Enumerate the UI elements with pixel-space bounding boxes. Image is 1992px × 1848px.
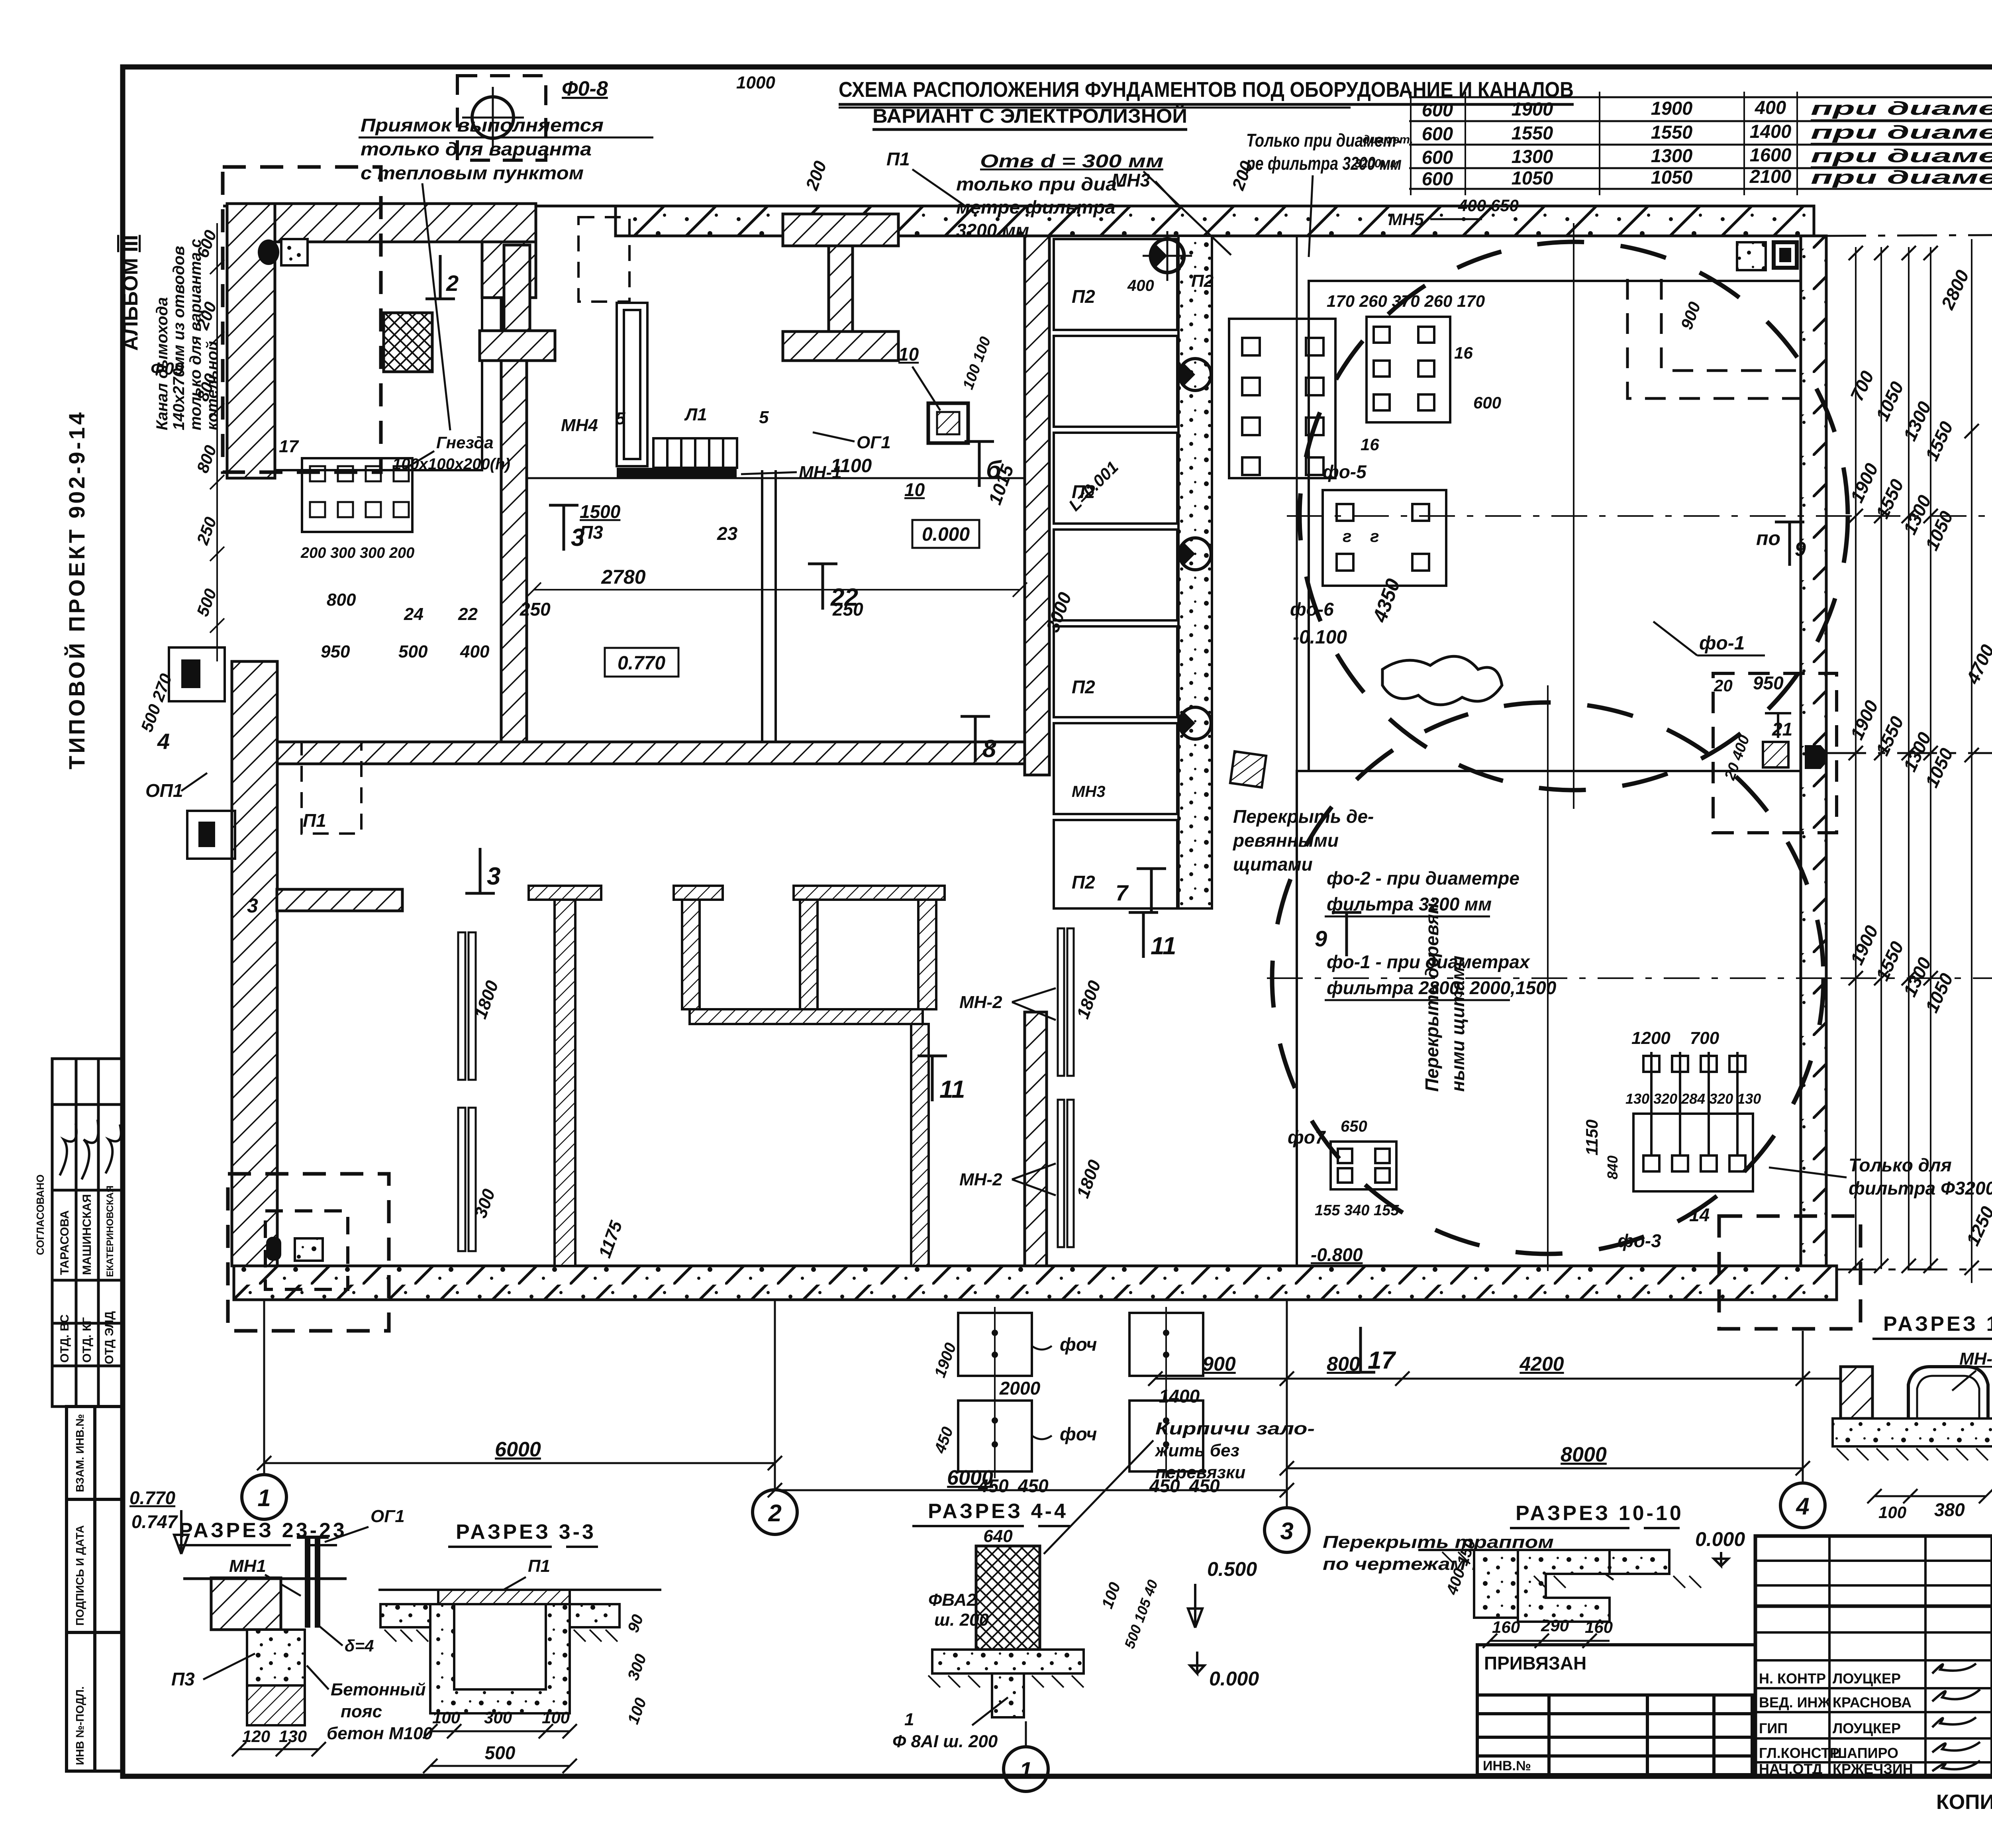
foundation ФО-7 xyxy=(1331,1142,1396,1189)
svg-text:П2: П2 xyxy=(1072,677,1095,697)
10-10 channel xyxy=(1474,1550,1518,1618)
23-23 steel post (black) xyxy=(305,1536,310,1628)
svg-text:ФВА2: ФВА2 xyxy=(928,1590,976,1610)
partition wall thin xyxy=(762,470,776,742)
svg-text:фильтра Ф3200: фильтра Ф3200 xyxy=(1849,1178,1992,1199)
svg-text:2100: 2100 xyxy=(1749,166,1792,187)
svg-text:ИНВ.№: ИНВ.№ xyxy=(1483,1758,1531,1773)
svg-text:ШАПИРО: ШАПИРО xyxy=(1833,1745,1898,1761)
svg-text:ревянными: ревянными xyxy=(1232,830,1339,851)
svg-text:155 340 155: 155 340 155 xyxy=(1315,1202,1399,1219)
перекрыть деревянными щитами (horizontal) xyxy=(1232,806,1374,875)
оп1 pad outside left wall xyxy=(169,647,225,701)
svg-text:жить без: жить без xyxy=(1155,1441,1239,1460)
svg-text:Перекрыть де-: Перекрыть де- xyxy=(1233,806,1374,827)
room level label 0.000 xyxy=(912,520,979,548)
svg-text:1050: 1050 xyxy=(1512,167,1553,188)
svg-text:Ф 8АI ш. 200: Ф 8АI ш. 200 xyxy=(892,1732,998,1751)
svg-text:котельной: котельной xyxy=(204,341,221,430)
svg-text:ЕКАТЕРИНОВСКАЯ: ЕКАТЕРИНОВСКАЯ xyxy=(105,1185,116,1277)
svg-text:1400: 1400 xyxy=(1750,121,1792,142)
ФО-8 dashed box with circle xyxy=(457,76,608,160)
signatures scribbles xyxy=(1932,1664,1980,1771)
канал дымохода vertical note xyxy=(153,239,221,430)
middle vertical wall lower (hatched) xyxy=(1025,1012,1047,1266)
svg-text:8: 8 xyxy=(982,735,996,763)
channel strip with speckle xyxy=(1178,236,1212,908)
svg-text:МН-2: МН-2 xyxy=(959,1170,1002,1189)
column axis circle 1 xyxy=(242,1475,286,1519)
svg-text:г г: г г xyxy=(1343,527,1379,545)
svg-text:22: 22 xyxy=(458,604,478,624)
left vertical dim chain of boiler area xyxy=(210,223,224,661)
23-23 lower concrete xyxy=(247,1630,305,1725)
svg-text:только для варианта с: только для варианта с xyxy=(187,239,204,430)
svg-text:КРЖЕЧЗИН: КРЖЕЧЗИН xyxy=(1833,1761,1913,1777)
section mark 7 xyxy=(1116,869,1166,912)
svg-text:0.500: 0.500 xyxy=(1207,1558,1257,1580)
svg-text:11: 11 xyxy=(939,1076,965,1103)
svg-text:16: 16 xyxy=(1454,343,1473,362)
svg-text:метре фильтра: метре фильтра xyxy=(956,197,1116,218)
svg-text:фо-3: фо-3 xyxy=(1618,1230,1661,1251)
right dimension chain lines xyxy=(1856,239,1992,1283)
svg-text:6000: 6000 xyxy=(495,1438,541,1461)
svg-text:Только при диамет-: Только при диамет- xyxy=(1246,130,1402,151)
svg-text:ОГ1: ОГ1 xyxy=(371,1507,405,1526)
svg-text:ПОДПИСЬ И ДАТА: ПОДПИСЬ И ДАТА xyxy=(74,1525,86,1626)
svg-text:3: 3 xyxy=(1280,1518,1293,1544)
svg-text:20: 20 xyxy=(1714,676,1733,695)
svg-text:ПРИВЯЗАН: ПРИВЯЗАН xyxy=(1484,1653,1586,1673)
section mark 9 xyxy=(1315,912,1361,956)
svg-text:ГИП: ГИП xyxy=(1759,1720,1788,1736)
svg-text:1900: 1900 xyxy=(1512,98,1553,120)
foundation cluster ФО-5 xyxy=(1367,317,1450,422)
left margin signatures scribbles xyxy=(60,1120,121,1179)
3-3 U channel xyxy=(430,1604,570,1713)
svg-text:400 650: 400 650 xyxy=(1458,196,1519,215)
svg-text:МН3: МН3 xyxy=(1112,170,1151,190)
room dims xyxy=(520,461,1076,635)
4 mark left xyxy=(157,729,258,917)
svg-text:600: 600 xyxy=(1422,99,1453,120)
МН-2 rails left xyxy=(458,932,476,1251)
small row labels left of table xyxy=(1355,133,1413,170)
4-4 pier below xyxy=(992,1673,1024,1717)
foundation ФО-6 xyxy=(1323,490,1446,586)
svg-text:КОПИРОВАЛ: КОРШУНОВА: КОПИРОВАЛ: КОРШУНОВА xyxy=(1936,1791,1992,1814)
svg-text:ТАРАСОВА: ТАРАСОВА xyxy=(58,1210,71,1275)
svg-text:ОТД. ВС: ОТД. ВС xyxy=(58,1314,71,1363)
boiler room left wall (hatched) xyxy=(227,204,275,478)
svg-text:3: 3 xyxy=(247,895,258,917)
svg-text:МН4: МН4 xyxy=(561,416,598,435)
svg-text:1300: 1300 xyxy=(1512,146,1553,167)
svg-text:ОТД. КГ: ОТД. КГ xyxy=(80,1317,94,1363)
11-11 left pier hatched xyxy=(1841,1367,1872,1418)
svg-text:200 300 300 200: 200 300 300 200 xyxy=(300,545,414,561)
svg-text:100: 100 xyxy=(1878,1503,1906,1522)
svg-text:16: 16 xyxy=(1361,435,1379,454)
svg-text:П2: П2 xyxy=(1072,286,1095,307)
svg-text:3: 3 xyxy=(487,863,500,890)
svg-text:0.000: 0.000 xyxy=(1695,1528,1745,1550)
svg-text:по: по xyxy=(1756,527,1780,549)
svg-text:400: 400 xyxy=(460,642,490,661)
оп1 pad 2 xyxy=(187,811,235,859)
dashed service lines top right xyxy=(1627,279,1801,398)
rotated chain dimension labels xyxy=(1846,267,1992,1249)
dim ticks on top band xyxy=(736,73,1257,193)
top-right corner pads xyxy=(1737,242,1766,270)
svg-text:П1: П1 xyxy=(886,149,910,169)
svg-text:пояс: пояс xyxy=(341,1702,382,1721)
svg-text:ре фильтра 3200 мм: ре фильтра 3200 мм xyxy=(1245,153,1402,174)
svg-text:0.770: 0.770 xyxy=(129,1487,176,1508)
svg-text:ВЗАМ. ИНВ.№: ВЗАМ. ИНВ.№ xyxy=(74,1414,86,1492)
svg-text:290: 290 xyxy=(1541,1616,1569,1635)
room outline below boiler xyxy=(527,478,1025,742)
svg-text:250: 250 xyxy=(520,599,551,620)
svg-text:1550: 1550 xyxy=(1512,122,1553,143)
secondary dim line 900 800 4200 xyxy=(1148,1371,1872,1386)
ФО-1 label xyxy=(1653,622,1765,655)
ФОЧ foundation squares below wall xyxy=(958,1313,1203,1471)
только для фильтра 3200 note xyxy=(1769,1155,1992,1199)
dashed pit bottom-left xyxy=(228,1174,389,1331)
svg-text:100: 100 xyxy=(432,1708,460,1727)
svg-text:СОГЛАСОВАНО: СОГЛАСОВАНО xyxy=(34,1175,46,1255)
svg-text:1: 1 xyxy=(257,1485,271,1511)
bolt pad near flue xyxy=(281,239,308,265)
svg-text:НАЧ.ОТД: НАЧ.ОТД xyxy=(1759,1761,1822,1777)
svg-text:при диаметре фильтра 3200 мм: при диаметре фильтра 3200 мм xyxy=(1811,98,1992,119)
interior horizontal wall band xyxy=(255,742,1048,764)
svg-text:фоч: фоч xyxy=(1060,1334,1097,1355)
svg-text:РАЗРЕЗ 3-3: РАЗРЕЗ 3-3 xyxy=(456,1520,596,1544)
second I pier top row xyxy=(783,214,898,361)
svg-text:300: 300 xyxy=(484,1708,512,1727)
svg-text:400: 400 xyxy=(1127,277,1154,294)
svg-text:фо-1: фо-1 xyxy=(1699,633,1745,654)
boiler room top wall (hatched) xyxy=(275,204,536,242)
filter hall separating line xyxy=(1296,236,1298,1266)
svg-text:П2: П2 xyxy=(1191,271,1214,291)
svg-text:2: 2 xyxy=(768,1500,781,1526)
svg-text:Бетонный: Бетонный xyxy=(331,1680,426,1699)
svg-text:1200 700: 1200 700 xyxy=(1631,1028,1719,1048)
svg-text:Л1: Л1 xyxy=(684,405,707,424)
svg-text:9: 9 xyxy=(1795,538,1806,560)
svg-text:РАЗРЕЗ 11-11: РАЗРЕЗ 11-11 xyxy=(1883,1312,1992,1336)
svg-text:ИНВ №-ПОДЛ.: ИНВ №-ПОДЛ. xyxy=(74,1686,86,1765)
title block signature rows xyxy=(1759,1670,1913,1777)
svg-text:950: 950 xyxy=(1753,673,1784,693)
svg-text:бетон М100: бетон М100 xyxy=(327,1724,433,1743)
svg-text:600: 600 xyxy=(1422,168,1453,189)
svg-text:950: 950 xyxy=(321,642,350,661)
svg-text:4: 4 xyxy=(1796,1493,1809,1520)
svg-text:11: 11 xyxy=(1151,932,1176,960)
svg-text:17: 17 xyxy=(1368,1347,1396,1374)
svg-text:Перекрыть деревян-: Перекрыть деревян- xyxy=(1421,897,1442,1092)
svg-text:П3: П3 xyxy=(580,522,603,543)
приямок note xyxy=(359,115,653,430)
svg-text:1600: 1600 xyxy=(1750,144,1792,165)
svg-text:1300: 1300 xyxy=(1651,145,1693,166)
rotated dims lower hall xyxy=(471,978,1105,1260)
отв d=300 circle on П2 xyxy=(1127,231,1214,294)
11-11 channel profile xyxy=(1908,1367,1988,1418)
svg-text:160: 160 xyxy=(1492,1618,1520,1636)
svg-text:Кирпичи зало-: Кирпичи зало- xyxy=(1155,1419,1315,1438)
filter circle ФО-2 square xyxy=(1309,281,1801,771)
svg-text:П3: П3 xyxy=(171,1669,195,1689)
svg-text:1000: 1000 xyxy=(736,73,775,92)
svg-text:0.000: 0.000 xyxy=(1209,1668,1259,1690)
svg-text:160: 160 xyxy=(1585,1618,1613,1636)
svg-text:Приямок выполняется: Приямок выполняется xyxy=(361,115,604,135)
svg-text:600: 600 xyxy=(1422,123,1453,144)
boiler room inner wall stub xyxy=(482,242,536,298)
main title line 1 xyxy=(839,78,1574,129)
column axis circle 4 xyxy=(1780,1483,1825,1528)
svg-text:фо-6: фо-6 xyxy=(1290,599,1334,620)
svg-text:5: 5 xyxy=(616,409,625,428)
lower-left hall top wall stub xyxy=(277,889,402,911)
boiler room inner outline xyxy=(275,242,482,470)
3-3 dims xyxy=(423,1724,577,1773)
svg-text:ТИПОВОЙ ПРОЕКТ 902-9-14: ТИПОВОЙ ПРОЕКТ 902-9-14 xyxy=(64,410,89,769)
МН-2 rails middle xyxy=(1058,928,1074,1247)
left approval stamp table xyxy=(52,1059,123,1407)
svg-text:щитами: щитами xyxy=(1233,854,1313,875)
bottom column axes xyxy=(264,1300,1803,1507)
svg-text:9: 9 xyxy=(1315,926,1327,951)
svg-text:4: 4 xyxy=(157,729,170,754)
svg-text:МАШИНСКАЯ: МАШИНСКАЯ xyxy=(80,1194,94,1275)
svg-text:1900: 1900 xyxy=(1651,98,1693,119)
svg-text:8000: 8000 xyxy=(1561,1443,1607,1466)
svg-text:ОГ1: ОГ1 xyxy=(857,433,891,452)
right exterior wall band xyxy=(1801,236,1826,1300)
фо-2 / фо-1 diameter notes xyxy=(1325,868,1557,1000)
svg-text:4200: 4200 xyxy=(1519,1353,1564,1375)
svg-text:3200 мм: 3200 мм xyxy=(956,220,1029,241)
foundation ФО-3 xyxy=(1633,1052,1753,1191)
svg-text:ЛОУЦКЕР: ЛОУЦКЕР xyxy=(1833,1670,1901,1687)
svg-text:7: 7 xyxy=(1116,880,1129,905)
svg-text:0.770: 0.770 xyxy=(618,653,665,674)
svg-text:РАЗРЕЗ 4-4: РАЗРЕЗ 4-4 xyxy=(928,1500,1068,1523)
svg-text:380: 380 xyxy=(1934,1499,1965,1520)
svg-text:100: 100 xyxy=(542,1708,570,1727)
svg-text:перевязки: перевязки xyxy=(1155,1463,1245,1482)
svg-text:2: 2 xyxy=(446,271,459,296)
svg-text:фо-2 - при диаметре: фо-2 - при диаметре xyxy=(1327,868,1519,889)
перекрыть деревянными щитами (vertical) xyxy=(1421,897,1468,1092)
svg-text:П1: П1 xyxy=(303,810,326,831)
svg-text:КРАСНОВА: КРАСНОВА xyxy=(1833,1694,1912,1711)
svg-text:Н. КОНТР: Н. КОНТР xyxy=(1759,1670,1826,1687)
svg-text:2780: 2780 xyxy=(601,566,645,588)
П2 slab column xyxy=(1054,239,1177,908)
svg-text:1150: 1150 xyxy=(1582,1120,1601,1155)
МН corner dashed box with 21 pad xyxy=(1713,673,1837,833)
svg-text:фо7: фо7 xyxy=(1288,1127,1326,1148)
svg-text:ОТД ЭЛД: ОТД ЭЛД xyxy=(103,1311,116,1364)
svg-text:при диаметре фильтра 1500 мм: при диаметре фильтра 1500 мм xyxy=(1811,167,1992,188)
bottom dimension lines xyxy=(257,1456,1810,1497)
stair ladder Л1 xyxy=(617,303,737,468)
svg-text:только для варианта: только для варианта xyxy=(361,139,592,159)
chain tick rows xyxy=(1849,229,1992,1275)
2 mark in boiler xyxy=(425,255,459,299)
svg-text:РАЗРЕЗ 10-10: РАЗРЕЗ 10-10 xyxy=(1516,1502,1684,1525)
svg-text:2000: 2000 xyxy=(999,1378,1041,1399)
svg-text:1550: 1550 xyxy=(1651,122,1693,143)
trap hatched square xyxy=(1230,751,1266,787)
svg-text:250: 250 xyxy=(832,599,863,620)
svg-text:-0.100: -0.100 xyxy=(1293,627,1347,648)
svg-text:500: 500 xyxy=(398,642,428,661)
svg-text:120: 120 xyxy=(242,1727,270,1746)
cloud arrow xyxy=(1382,656,1502,705)
svg-text:650: 650 xyxy=(1341,1118,1367,1135)
svg-text:с тепловым пунктом: с тепловым пунктом xyxy=(361,163,584,183)
3-3 side ground pads xyxy=(380,1604,430,1627)
room level label 0.770 xyxy=(605,648,678,677)
filter circle lower room xyxy=(1297,771,1801,1266)
column axis circle 3 xyxy=(1265,1508,1309,1552)
dashed small rects in boiler room xyxy=(578,217,629,302)
axis dash-dot lines to letter circles xyxy=(1826,235,1992,1269)
smoke duct grid square xyxy=(384,313,432,372)
4-4 brick pier xyxy=(976,1546,1040,1650)
svg-text:130: 130 xyxy=(279,1727,307,1746)
svg-text:при диаметре фильтра 2800 мм: при диаметре фильтра 2800 мм xyxy=(1811,122,1992,143)
svg-text:ОП1: ОП1 xyxy=(145,780,183,801)
svg-text:600: 600 xyxy=(1422,147,1453,168)
left exterior wall lower part xyxy=(232,661,277,1266)
svg-text:640: 640 xyxy=(983,1526,1013,1546)
23-23 slab hatched xyxy=(211,1578,281,1630)
pier A lower flange xyxy=(480,245,555,361)
svg-text:только при диа-: только при диа- xyxy=(956,174,1123,194)
svg-text:Канал дымохода: Канал дымохода xyxy=(153,297,171,430)
svg-text:170 260 370 260 170: 170 260 370 260 170 xyxy=(1327,292,1485,310)
svg-text:ЛОУЦКЕР: ЛОУЦКЕР xyxy=(1833,1720,1901,1736)
svg-text:130 320 284 320 130: 130 320 284 320 130 xyxy=(1625,1091,1761,1107)
svg-text:Только для: Только для xyxy=(1849,1155,1952,1175)
foundation cluster K (bolt group) xyxy=(1229,319,1335,478)
svg-text:450: 450 xyxy=(978,1475,1009,1496)
column axis circle 2 xyxy=(753,1490,797,1534)
big dashed filter circle 2 xyxy=(1267,685,1841,1271)
svg-text:МН1: МН1 xyxy=(229,1556,266,1576)
примечание table left of title block xyxy=(1477,1645,1755,1775)
lower-left hall piers (I-shaped) xyxy=(529,886,945,1266)
svg-text:МН-2: МН-2 xyxy=(959,993,1002,1012)
svg-text:1: 1 xyxy=(904,1710,914,1729)
svg-text:фо-5: фо-5 xyxy=(1323,461,1367,482)
svg-text:ГЛ.КОНСТР: ГЛ.КОНСТР xyxy=(1759,1745,1839,1761)
svg-text:АЛЬБОМ III: АЛЬБОМ III xyxy=(119,235,142,351)
svg-text:450: 450 xyxy=(1018,1475,1049,1496)
svg-text:МН-1: МН-1 xyxy=(799,463,842,482)
svg-text:840: 840 xyxy=(1604,1155,1621,1179)
svg-text:800: 800 xyxy=(1327,1353,1360,1375)
П1 label above top band xyxy=(886,149,1179,207)
отверстие d=300 note xyxy=(956,151,1231,255)
left lower stamp column xyxy=(67,1407,123,1771)
centerline extensions to chains xyxy=(1865,515,1992,517)
svg-text:0.747: 0.747 xyxy=(131,1511,178,1532)
svg-text:П1: П1 xyxy=(528,1556,550,1576)
labels near stair xyxy=(561,405,891,482)
svg-text:Отв d = 300 мм: Отв d = 300 мм xyxy=(980,151,1163,171)
svg-text:МН5: МН5 xyxy=(1388,210,1424,229)
svg-text:Гнезда: Гнезда xyxy=(436,433,494,452)
svg-text:800: 800 xyxy=(327,590,356,610)
svg-text:17: 17 xyxy=(279,437,299,456)
svg-text:1500: 1500 xyxy=(580,501,621,522)
interior vertical wall (hatched) xyxy=(501,298,527,764)
svg-text:23: 23 xyxy=(717,523,738,544)
3-3 top slab xyxy=(438,1590,570,1604)
по 9 mark xyxy=(1756,522,1806,566)
svg-text:Ф0-8: Ф0-8 xyxy=(562,77,608,100)
svg-text:140х270мм из отводов: 140х270мм из отводов xyxy=(170,246,188,430)
svg-text:при диаметре фильтра 2000 мм: при диаметре фильтра 2000 мм xyxy=(1811,145,1992,166)
svg-text:600: 600 xyxy=(1473,393,1501,412)
4-4 footing xyxy=(932,1650,1084,1673)
гнезда bolt field xyxy=(151,359,510,661)
svg-text:0.000: 0.000 xyxy=(922,524,970,545)
svg-text:1400: 1400 xyxy=(1159,1386,1200,1407)
svg-text:500: 500 xyxy=(485,1742,516,1763)
svg-text:П2: П2 xyxy=(1072,872,1095,893)
svg-text:-0.800: -0.800 xyxy=(1311,1244,1363,1265)
filter-diameter dimension table top right xyxy=(1409,92,1992,195)
svg-text:δ=4: δ=4 xyxy=(345,1636,374,1655)
svg-text:14: 14 xyxy=(1689,1205,1710,1225)
dashed pit bottom-right xyxy=(1719,1216,1861,1329)
11-11 base xyxy=(1833,1418,1992,1446)
top exterior wall band (concrete) xyxy=(223,206,1814,236)
svg-text:5: 5 xyxy=(759,408,769,427)
svg-text:24: 24 xyxy=(404,604,423,624)
svg-text:10: 10 xyxy=(898,344,919,365)
только при диаметре фильтра 3200мм (right) xyxy=(1245,130,1518,257)
svg-text:1050: 1050 xyxy=(1651,167,1693,188)
svg-text:ВЕД. ИНЖ: ВЕД. ИНЖ xyxy=(1759,1694,1831,1711)
dashed outline of pit (приямок) xyxy=(223,167,381,472)
second underline header xyxy=(839,107,1351,109)
section marks in plan xyxy=(465,441,1396,1374)
svg-text:ш. 200: ш. 200 xyxy=(934,1610,989,1630)
svg-text:21: 21 xyxy=(1772,719,1792,740)
МН-1 embedded bar (black) xyxy=(617,468,737,478)
svg-text:1: 1 xyxy=(1020,1758,1032,1783)
big dashed filter circle 1 xyxy=(1287,223,1865,809)
svg-text:100х100х200(h): 100х100х200(h) xyxy=(392,455,510,473)
flue black oval xyxy=(258,239,279,265)
middle vertical wall upper (hatched) xyxy=(1025,236,1049,775)
svg-text:ными щитами: ными щитами xyxy=(1447,955,1468,1092)
МН-2 labels xyxy=(959,988,1056,1195)
